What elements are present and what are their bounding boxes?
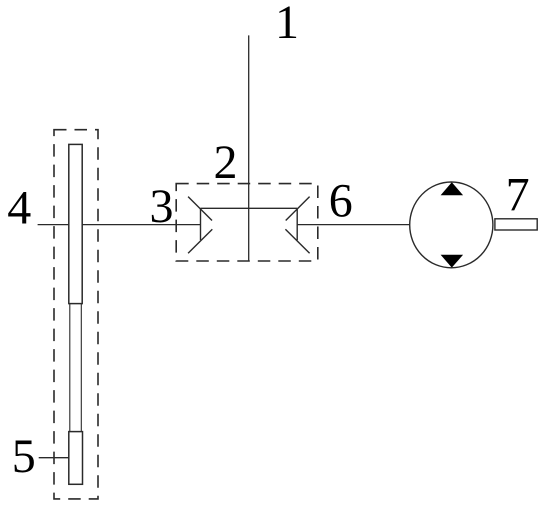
svg-text:6: 6	[329, 174, 353, 227]
rod middle shaft: left line	[69, 304, 71, 432]
wire: main horizontal shaft left segment (label 4 lead to rod)	[38, 224, 69, 226]
clutch half left: upper diagonal	[188, 197, 212, 221]
svg-text:7: 7	[506, 169, 530, 222]
pump top triangle (filled, pointing up)	[441, 182, 464, 195]
clutch half right: upper diagonal	[286, 197, 310, 221]
wire: main horizontal shaft from rod to left clutch bar	[82, 224, 200, 226]
dashed box: left tool assembly (parts 4,5)	[54, 130, 98, 499]
wire: input line from label 1 down into clutch box	[248, 35, 250, 260]
rod middle shaft: right line	[80, 304, 82, 432]
dashed box: clutch assembly 2	[176, 184, 318, 261]
clutch half left: vertical bar	[200, 208, 202, 240]
clutch link: top horizontal line joining the two half-couplings	[201, 207, 298, 209]
svg-text:4: 4	[7, 182, 31, 235]
wire: shaft from right clutch bar to pump circle	[297, 224, 410, 226]
wire: leader line from label 5 to lower rod block	[39, 457, 69, 459]
clutch half right: vertical bar	[296, 208, 298, 240]
clutch half left: lower diagonal	[188, 229, 212, 253]
pump/motor circle 7	[410, 182, 493, 268]
svg-text:2: 2	[214, 136, 238, 189]
svg-text:3: 3	[150, 180, 174, 233]
output shaft stub rectangle at 7	[495, 219, 537, 230]
pump bottom triangle (filled, pointing down)	[441, 255, 464, 268]
clutch half right: lower diagonal	[285, 229, 309, 253]
rod upper block (inside dashed box, part of 4)	[69, 144, 82, 303]
svg-text:5: 5	[12, 430, 36, 483]
rod lower block 5	[69, 432, 83, 485]
svg-text:1: 1	[275, 0, 299, 49]
